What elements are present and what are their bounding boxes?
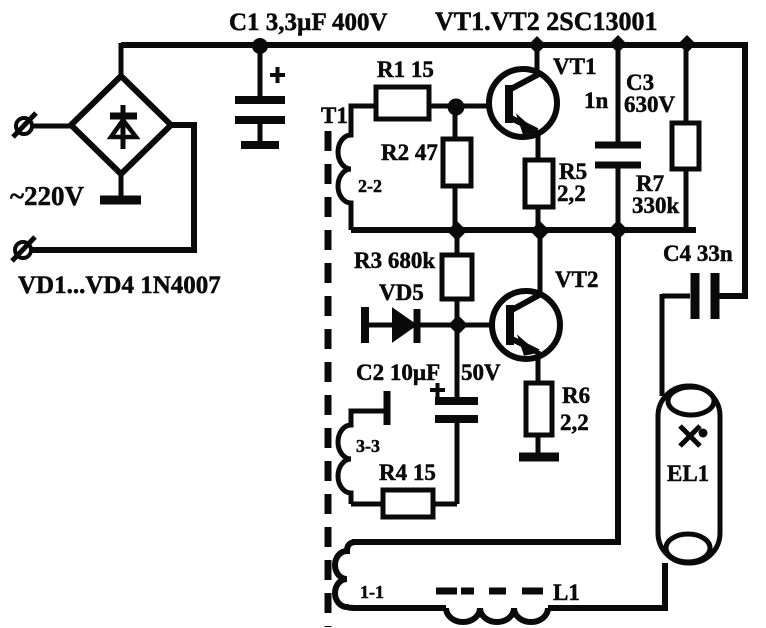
wire: R6 to ground xyxy=(536,435,541,453)
diode VD5 xyxy=(365,307,457,343)
wire: VT1 emitter to R5 xyxy=(536,130,541,160)
wire: mid rail down to lamp loop xyxy=(352,230,618,542)
svg-text:EL1: EL1 xyxy=(667,461,709,486)
ground bar under C1 xyxy=(241,141,279,149)
svg-text:3-3: 3-3 xyxy=(356,436,380,456)
core dashes of L1 xyxy=(436,588,543,595)
svg-text:R2 47: R2 47 xyxy=(381,140,438,165)
wire: base node to VT1 xyxy=(456,104,492,109)
svg-text:VT2: VT2 xyxy=(555,267,598,292)
node: C3 on mid rail xyxy=(608,220,628,240)
node: R5/VT2 on mid rail xyxy=(530,221,550,241)
svg-text:T1: T1 xyxy=(321,103,348,128)
winding 2-2 of T1 xyxy=(338,106,376,230)
svg-text:R4 15: R4 15 xyxy=(379,460,436,485)
node: VT1 collector on top rail xyxy=(528,36,546,54)
svg-text:C4 33n: C4 33n xyxy=(663,241,733,266)
wire: bridge top stub xyxy=(119,43,124,78)
resistor R4 xyxy=(351,490,457,517)
node: R2/R3 on mid rail xyxy=(447,221,467,241)
transistor VT2 xyxy=(492,291,560,359)
ground bar under R6 xyxy=(519,453,559,462)
svg-text:1-1: 1-1 xyxy=(360,582,384,602)
AC input terminal top xyxy=(13,113,36,137)
svg-text:R1 15: R1 15 xyxy=(377,57,434,82)
wire: bridge bottom stub xyxy=(119,172,124,196)
node: VT2 base junction xyxy=(448,315,468,335)
resistor R3 xyxy=(442,231,472,325)
svg-text:2-2: 2-2 xyxy=(358,176,382,196)
winding 3-3 of T1 xyxy=(338,411,387,504)
svg-text:330k: 330k xyxy=(632,193,680,218)
svg-text:VD1...VD4 1N4007: VD1...VD4 1N4007 xyxy=(18,272,221,299)
resistor R6 xyxy=(526,383,552,435)
svg-text:R6: R6 xyxy=(562,383,590,408)
bridge rectifier VD1-VD4 diamond xyxy=(71,76,171,174)
wire: top DC rail xyxy=(121,42,745,48)
node: C3 on top rail xyxy=(609,35,627,53)
AC input terminal bottom xyxy=(12,237,35,261)
wire: terminal to bridge left vertex xyxy=(30,124,72,129)
inductor L1 xyxy=(446,608,548,622)
capacitor C1 xyxy=(235,46,285,142)
capacitor C3 xyxy=(595,45,641,230)
resistor R5 xyxy=(525,160,553,207)
svg-text:L1: L1 xyxy=(553,580,580,605)
wire: junction to VT2 base xyxy=(458,323,494,328)
wire: VT1 collector to rail xyxy=(535,45,540,72)
ground bar under bridge xyxy=(100,196,141,205)
wire: VT2 collector to mid rail xyxy=(538,231,543,292)
svg-text:2,2: 2,2 xyxy=(560,410,589,435)
emitter arrow VT2 xyxy=(520,339,535,354)
svg-text:1n: 1n xyxy=(584,88,609,113)
wire: L1 to lamp bottom xyxy=(548,563,665,608)
polarity + of C2 xyxy=(430,383,445,397)
resistor R1 xyxy=(376,87,429,119)
svg-text:C2 10µF: C2 10µF xyxy=(356,360,440,385)
capacitor C4 xyxy=(662,273,745,319)
node: VT1 base junction xyxy=(448,99,465,116)
svg-text:2,2: 2,2 xyxy=(557,181,586,206)
svg-text:~220V: ~220V xyxy=(10,181,85,211)
node: C1 junction on top rail xyxy=(252,38,268,54)
wire: VT2 emitter to R6 xyxy=(536,351,541,383)
resistor R7 xyxy=(672,45,699,230)
transformer T1 core dashed line xyxy=(325,131,332,627)
fluorescent lamp EL1 xyxy=(658,386,720,563)
polarity + of C1 xyxy=(270,67,285,83)
lamp broken marker x-dot xyxy=(680,426,700,446)
capacitor C2 xyxy=(435,325,478,504)
terminal bar of winding 3-3 xyxy=(384,391,391,425)
diode symbol inside bridge xyxy=(110,105,137,149)
svg-text:50V: 50V xyxy=(461,360,501,385)
transistor VT1 xyxy=(489,69,557,137)
svg-text:VD5: VD5 xyxy=(379,280,424,305)
svg-text:C1 3,3µF 400V: C1 3,3µF 400V xyxy=(229,9,388,36)
emitter arrow VT1 xyxy=(519,118,534,133)
wire: R5 to mid rail xyxy=(536,207,541,231)
winding 1-1 of T1 xyxy=(335,542,446,608)
wire: right edge vertical xyxy=(719,42,745,296)
wire: C4 to lamp top xyxy=(660,294,665,396)
svg-text:R3 680k: R3 680k xyxy=(354,248,435,273)
node: R7 on top rail xyxy=(678,35,696,53)
wire: mid rail xyxy=(351,227,696,233)
svg-text:VT1.VT2 2SC13001: VT1.VT2 2SC13001 xyxy=(435,7,657,36)
wire: bridge right vertex to bottom terminal xyxy=(30,125,194,250)
resistor R2 xyxy=(443,107,471,231)
wire: R1 to base node xyxy=(429,104,456,109)
svg-text:VT1: VT1 xyxy=(553,54,596,79)
svg-text:630V: 630V xyxy=(624,92,676,117)
